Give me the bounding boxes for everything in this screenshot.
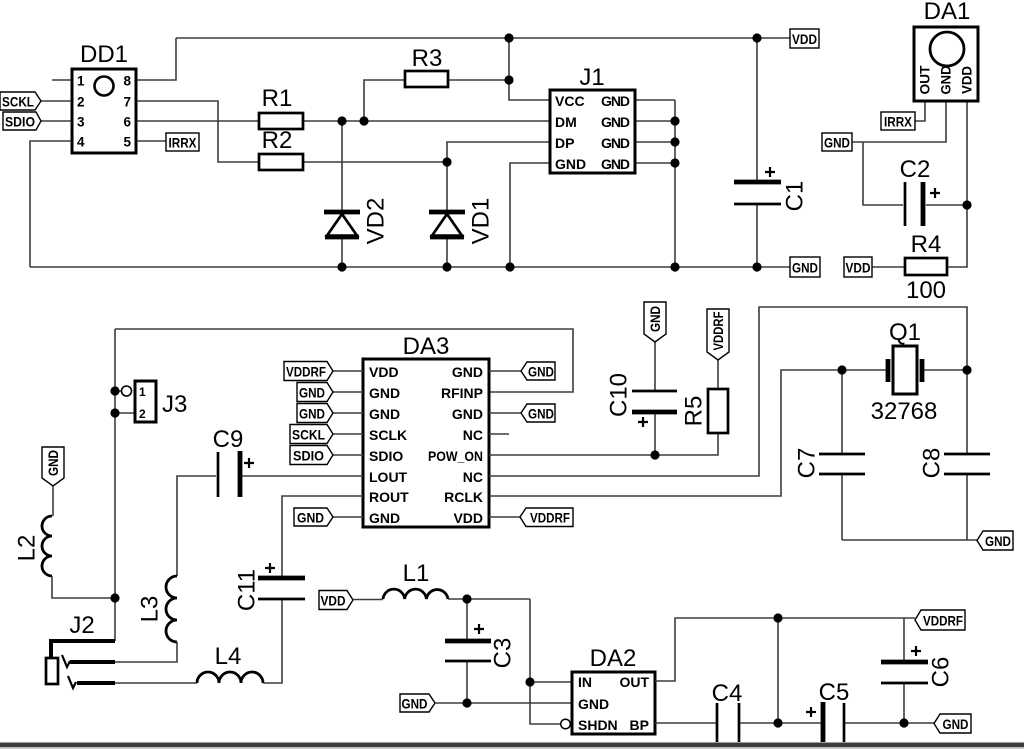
svg-text:6: 6 [123,115,131,130]
svg-text:R5: R5 [681,396,708,427]
wire: L1 to DA2 IN branch [448,598,530,600]
net flag GND (DA3 right 3) [521,404,555,422]
svg-text:RFINP: RFINP [441,385,483,401]
svg-text:GND: GND [601,114,630,130]
wire: LOUT to C9 [242,475,363,477]
svg-text:32768: 32768 [871,398,938,425]
svg-text:J1: J1 [579,64,604,91]
svg-text:4: 4 [77,135,85,150]
svg-text:POW_ON: POW_ON [428,448,483,464]
net flag GND (DA3 left bottom) [294,508,333,526]
inductor L2 [14,516,53,576]
svg-text:GND: GND [297,510,324,526]
wire: GND flag to L2 [52,486,54,516]
svg-text:GND: GND [601,93,630,109]
svg-text:GND: GND [452,364,483,380]
svg-text:DD1: DD1 [80,41,128,68]
IC DA1 [914,0,978,101]
capacitor C8 [919,370,991,540]
resistor R2 [259,127,303,170]
wire: jack sleeve contact to L4 [115,682,197,684]
svg-text:SDIO: SDIO [369,448,403,464]
wire: DD1 pin5 to IRRX label [136,140,166,142]
svg-text:SDIO: SDIO [293,448,324,464]
wire: C2 right plate to VDD net [926,204,967,206]
wire: antenna rail to jack tip [114,598,116,641]
svg-text:C3: C3 [490,638,517,669]
junction dot C2/VDD node [962,200,971,209]
wire: DD1 pin4 to ground rail [30,141,72,267]
svg-text:IRRX: IRRX [884,114,913,130]
svg-text:DA3: DA3 [403,333,450,360]
wire: GND flag to DA2 GND [435,702,572,704]
wire: IN junction to DA2 [530,681,572,683]
svg-text:SCKL: SCKL [2,94,34,110]
wire: SCKL flag to DA3 SCLK [333,433,363,435]
net flag GND (above L2, pointing down) [42,447,64,486]
capacitor C11 [234,563,306,611]
wire: VDDRF flag to DA3 VDD [333,370,363,372]
svg-text:GND: GND [824,135,850,151]
svg-text:GND: GND [528,406,554,422]
net flag GND (C7/C8) [977,531,1013,550]
wire: DD1 pin8 to VDD rail [136,38,176,80]
svg-text:DP: DP [555,135,574,151]
svg-text:GND: GND [555,156,586,172]
capacitor C7 [794,370,866,540]
wire: SDIO flag to DA3 SDIO [333,454,363,456]
wire: POW_ON to C10/R5 [489,433,718,455]
svg-text:VCC: VCC [555,93,585,109]
wire: L3 bottom to jack ring contact [115,642,177,662]
svg-text:VDD: VDD [960,66,975,94]
svg-text:C8: C8 [919,448,946,479]
resistor R1 [259,85,303,129]
inductor L4 [197,643,263,683]
wire: DA1 OUT pin to IRRX [915,101,925,121]
svg-text:GND: GND [452,406,483,422]
svg-text:GND: GND [369,406,400,422]
connector J3 [122,381,188,422]
svg-text:IN: IN [578,674,592,690]
wire: VD2 legs [341,121,343,267]
wire: R3 left leg [364,80,405,121]
wire: NC pin to crystal right node [489,307,967,476]
svg-text:GND: GND [647,306,663,332]
net flag SCKL (DD1) [0,92,41,110]
wire: DA2 OUT to VDDRF bus [655,618,915,681]
capacitor C10 [606,342,678,455]
inductor L1 [383,560,448,599]
IC DD1 [72,41,136,153]
wire: R3 right leg [448,79,509,81]
svg-text:GND: GND [369,385,400,401]
net flag GND (BP bus) [934,714,971,733]
wire: C1 legs [756,38,758,267]
wire: C9 to L3 top [177,476,216,576]
capacitor C9 [213,426,254,497]
net flag VDD (L1) [319,591,353,610]
net flag VDDRF (above R5, pointing down) [707,309,729,360]
svg-text:1: 1 [77,74,85,89]
wire: VDD label to R4 [872,266,905,268]
svg-text:C7: C7 [794,448,821,479]
svg-text:J3: J3 [162,391,187,418]
svg-text:VD1: VD1 [468,198,495,245]
svg-text:R2: R2 [262,127,293,154]
wire: DA3 NC stub [489,433,509,435]
svg-text:VDDRF: VDDRF [923,613,963,629]
svg-text:GND: GND [45,450,61,476]
svg-text:LOUT: LOUT [369,469,408,485]
svg-text:C6: C6 [928,657,955,688]
net flag SDIO (DA3) [290,446,333,465]
svg-text:VDD: VDD [369,364,399,380]
svg-text:ROUT: ROUT [369,489,409,505]
svg-text:BP: BP [630,717,649,733]
svg-text:2: 2 [77,95,85,110]
svg-text:1: 1 [139,385,146,399]
svg-text:VDDRF: VDDRF [530,510,570,526]
wire: L4 right to C11 bottom [263,599,282,683]
svg-text:3: 3 [77,115,85,130]
svg-text:R4: R4 [911,231,942,258]
capacitor C4 [712,680,743,742]
svg-text:C4: C4 [712,680,743,707]
capacitor C3 [445,599,517,703]
wire: DD1 pin1 stub [52,79,72,81]
svg-text:VDD: VDD [321,593,346,609]
wire: J1 GND left pin to rail [510,163,550,267]
junction dots top section [337,33,761,271]
wire: J3 pin1 [115,390,121,392]
capacitor C1 [734,167,809,211]
net flag VDDRF (DA3 left) [284,362,333,381]
svg-text:RCLK: RCLK [444,489,483,505]
svg-text:SCKL: SCKL [292,427,325,443]
IC DA2 [561,645,655,734]
wire: VDDRF bus branch to BP bus [777,618,779,723]
svg-text:GND: GND [299,406,325,422]
inductor L3 [137,576,178,642]
svg-text:J2: J2 [69,612,94,639]
diode VD1 [429,198,495,245]
net flag GND (DA3 left 2) [297,383,333,402]
crystal Q1 value 32768 [842,319,967,425]
svg-text:C1: C1 [782,181,809,212]
wire: L2 bottom to antenna rail [52,576,115,598]
wire: DA1 GND pin to GND label [852,101,946,142]
svg-text:NC: NC [463,427,483,443]
wire: DD1 pin7 to R2 [136,101,259,162]
connector J1 [550,64,635,173]
svg-text:5: 5 [123,135,131,150]
net label GND (bottom rail end) [790,257,820,277]
wire: R1 to J1 DM net [303,120,550,122]
wire: DA1 VDD pin down to R4 [947,101,967,267]
svg-text:2: 2 [139,407,146,421]
svg-text:L3: L3 [137,596,164,623]
wire: RFINP to antenna rail [115,329,573,392]
resistor R3 [405,45,448,87]
wire: branch down to IN and SHDN [530,599,560,724]
svg-text:R1: R1 [262,85,293,112]
svg-text:7: 7 [123,95,131,110]
wire: GND branch down to C2 left plate [863,142,903,205]
svg-text:OUT: OUT [619,674,649,690]
resistor R4 value 100 [905,231,947,304]
svg-text:OUT: OUT [918,65,933,95]
svg-text:GND: GND [402,696,428,712]
svg-text:C2: C2 [900,156,931,183]
wire: DA3 GND right top to flag [489,370,521,372]
svg-text:GND: GND [985,533,1011,549]
svg-text:VDDRF: VDDRF [286,364,326,380]
svg-text:C5: C5 [819,679,850,706]
svg-text:GND: GND [578,696,609,712]
svg-text:L4: L4 [215,643,242,670]
wire: GND flag to DA3 GND3 [333,412,363,414]
net label GND (DA1) [822,133,852,151]
wire: VDD flag to L1 [353,599,383,601]
wire: C7/C8 ground bus [842,539,977,541]
svg-text:L1: L1 [403,560,430,587]
svg-text:100: 100 [906,277,946,304]
wire: BP bus segments [655,722,934,724]
svg-text:GND: GND [528,364,554,380]
wire: DD1 pin6 to R1 [136,120,259,122]
svg-text:C9: C9 [213,426,244,453]
capacitor C6 [881,646,955,687]
junction dot antenna node [110,593,119,602]
net flag VDDRF (DA2 out) [915,610,965,630]
svg-text:DA2: DA2 [590,645,637,672]
svg-text:8: 8 [123,74,131,89]
svg-text:VDD: VDD [792,31,817,47]
svg-text:NC: NC [463,469,483,485]
net label VDD (top right) [790,29,819,48]
svg-text:GND: GND [299,385,325,401]
scan artifact bar at bottom [0,743,1024,749]
svg-text:SDIO: SDIO [5,114,35,130]
net label IRRX (DD1 pin5) [166,133,199,151]
resistor R5 [681,360,729,433]
svg-text:SHDN: SHDN [578,717,618,733]
svg-text:VDD: VDD [846,260,871,276]
junction dots bottom section [462,594,908,727]
wire: SCKL flag to DD1 pin2 [41,100,72,102]
net flag SDIO (DD1) [3,112,41,130]
svg-text:C10: C10 [606,373,633,417]
svg-text:GND: GND [601,156,630,172]
svg-text:GND: GND [369,510,400,526]
svg-text:GND: GND [601,135,630,151]
wire: SDIO flag to DD1 pin3 [41,120,72,122]
svg-text:DA1: DA1 [924,0,971,25]
net flag GND (above C10, pointing down) [644,302,666,342]
net flag GND (C3/DA2) [400,694,435,712]
wire: VDD top rail [176,37,790,39]
wire: C6 legs [903,618,905,723]
svg-text:GND: GND [943,716,969,732]
wire: DA3 GND right to flag [489,412,521,414]
svg-text:VDD: VDD [453,510,483,526]
wire: DP junction to J1 DP [447,142,550,162]
net label IRRX (DA1) [881,112,915,130]
diode VD2 [324,198,390,245]
capacitor C5 [806,679,849,742]
wire: ROUT to C11 [282,496,363,578]
junction dots middle section [110,365,971,459]
net flag VDDRF (DA3 right bottom) [520,508,573,527]
wire: R2 to DP junction [303,161,447,163]
capacitor C2 [900,156,940,226]
svg-text:IRRX: IRRX [169,135,198,151]
IC DA3 [363,333,489,527]
wire: antenna rail J3 [114,329,116,598]
wire: GND bottom rail [30,266,790,268]
svg-text:DM: DM [555,114,577,130]
svg-text:VD2: VD2 [363,198,390,245]
net flag SCKL (DA3) [290,425,333,444]
svg-text:VDDRF: VDDRF [710,311,726,350]
svg-text:GND: GND [792,260,818,276]
svg-text:GND: GND [939,65,954,94]
svg-text:R3: R3 [412,45,443,72]
wire: J1 right GND pins bus [635,100,675,267]
wire: VD1 legs [446,162,448,267]
wire: DA3 VDD right to VDDRF flag [489,516,520,518]
wire: GND flag to DA3 GND8 [333,516,363,518]
audio jack J2 [46,612,115,688]
net label VDD (R4) [844,257,872,277]
svg-text:SCLK: SCLK [369,427,407,443]
wire: GND flag to DA3 GND2 [333,391,363,393]
wire: RCLK to crystal left node [489,370,842,496]
svg-text:C11: C11 [234,569,261,611]
net flag GND (DA3 right top) [521,362,555,380]
wire: VDD rail to J1 VCC [509,38,550,100]
svg-text:Q1: Q1 [889,319,921,346]
svg-text:L2: L2 [14,535,41,562]
wire: J3 pin2 [115,412,135,414]
net flag GND (DA3 left 3) [297,404,333,423]
